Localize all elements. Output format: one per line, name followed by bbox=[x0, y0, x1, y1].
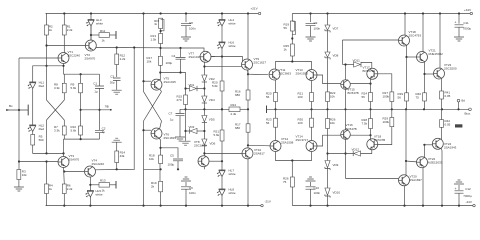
wire: HL4 to HL6 bbox=[221, 26, 223, 42]
wire: mid rail right segment bbox=[267, 108, 471, 110]
svg-text:-44V: -44V bbox=[466, 200, 472, 204]
junction dot VT5 column bbox=[159, 71, 161, 73]
zener VD8z bbox=[325, 52, 339, 59]
wire: feedback tap bbox=[81, 109, 110, 111]
diode VD3 bbox=[186, 125, 205, 134]
resistor R15 bbox=[177, 95, 188, 105]
svg-text:7000µ: 7000µ bbox=[463, 26, 472, 30]
wire: VT6 base bbox=[144, 129, 152, 131]
wire: to VT21 base bbox=[407, 56, 417, 58]
wire: VT15 emitter down bbox=[345, 89, 347, 109]
wire: VT17 emitter down bbox=[370, 79, 372, 93]
wire: R22z to mid rail bbox=[327, 102, 329, 119]
svg-text:56: 56 bbox=[284, 26, 288, 30]
junction dots on -44V rail bbox=[309, 205, 460, 207]
wire: VT6 collector bbox=[160, 121, 162, 129]
svg-text:VD8: VD8 bbox=[333, 54, 339, 58]
svg-text:7.5k: 7.5k bbox=[362, 122, 368, 126]
svg-text:2SA1015: 2SA1015 bbox=[189, 55, 202, 59]
terminal -21V bbox=[261, 200, 271, 207]
connector bar top bbox=[115, 31, 117, 39]
resistor R7 bbox=[54, 125, 66, 135]
svg-text:C9: C9 bbox=[314, 21, 318, 25]
svg-text:Red: Red bbox=[39, 84, 45, 88]
wire: VD5 to VD3 bbox=[203, 123, 205, 140]
svg-text:BC547B: BC547B bbox=[346, 127, 357, 131]
wire: R13 to R17 bbox=[160, 44, 162, 57]
svg-text:2SC4793: 2SC4793 bbox=[409, 34, 422, 38]
junction dot mid rail VAS bbox=[247, 108, 249, 110]
wire: R21 to rail bbox=[311, 102, 313, 110]
svg-text:560: 560 bbox=[39, 138, 44, 142]
wire: VT10 collector down bbox=[247, 159, 249, 206]
wire: bus1 bbox=[64, 73, 100, 75]
capacitor C11 bbox=[455, 14, 472, 31]
transistor VT8 bbox=[194, 140, 209, 167]
svg-text:75: 75 bbox=[416, 96, 420, 100]
diode VD1 bbox=[186, 83, 205, 91]
resistor R6 bbox=[62, 184, 73, 194]
svg-text:2SA817: 2SA817 bbox=[254, 152, 265, 156]
svg-text:2k: 2k bbox=[151, 185, 155, 189]
connector bar input bbox=[27, 105, 29, 116]
wire: emitter line y83.6 bbox=[350, 83, 371, 85]
wire: rail to R42 bbox=[441, 109, 443, 119]
resistor R13 bbox=[151, 34, 163, 44]
svg-text:white: white bbox=[229, 44, 236, 48]
wire: bus2 bbox=[64, 138, 100, 140]
zener VD9 bbox=[325, 161, 339, 171]
wire: X to R7 bbox=[63, 120, 65, 126]
wire: VT20 base line bbox=[346, 178, 399, 180]
junction dot Y-join bbox=[291, 60, 293, 62]
wire: X left verticals bbox=[47, 93, 65, 154]
wire: VT12 base feed bbox=[247, 132, 270, 148]
wire: R23 leads bbox=[275, 109, 277, 140]
zener VD7z bbox=[325, 14, 339, 33]
junction dot R12b node bbox=[89, 184, 91, 186]
ground C3 bbox=[112, 90, 122, 94]
wire: R16 to rail bbox=[247, 100, 249, 109]
wire: R39 to rail bbox=[406, 101, 408, 109]
junction dots mid rail left bbox=[184, 108, 223, 110]
resistor R22z bbox=[326, 91, 336, 102]
junction dot R21a top bbox=[221, 108, 223, 110]
svg-text:1.5k: 1.5k bbox=[151, 37, 157, 41]
svg-text:2.2k: 2.2k bbox=[67, 187, 73, 191]
svg-text:+: + bbox=[455, 187, 457, 191]
terminal +44V bbox=[464, 8, 472, 15]
wire: R4 leads bbox=[45, 162, 48, 206]
resistor R23 bbox=[266, 118, 278, 128]
wire: rail to R1 bbox=[63, 14, 65, 26]
wire: R5 down to VT3 emitter line bbox=[33, 145, 64, 153]
svg-text:-21V: -21V bbox=[265, 200, 271, 204]
wire: VT15 top bbox=[345, 65, 347, 81]
junction dot VT6 base bbox=[142, 129, 144, 131]
wire: VT23 collector bbox=[439, 14, 441, 69]
svg-text:56: 56 bbox=[398, 96, 402, 100]
transistor VT17p bbox=[341, 123, 357, 139]
diff cross X mid bbox=[144, 92, 162, 121]
transistor VT16p bbox=[363, 66, 378, 80]
wire: C2 bottom bbox=[99, 133, 101, 139]
svg-text:Вх.: Вх. bbox=[9, 104, 13, 108]
svg-text:100n: 100n bbox=[314, 191, 321, 195]
transistor VT13 bbox=[296, 68, 318, 81]
diode VD5 bbox=[202, 109, 215, 122]
wire: VT22 collector bbox=[422, 168, 424, 206]
svg-text:3.3k: 3.3k bbox=[54, 86, 60, 90]
wire: VT1 emitter line bbox=[63, 64, 65, 75]
wire: HL7 to HL8 bbox=[221, 177, 223, 190]
wire: R20 to rail bbox=[275, 102, 277, 110]
resistor R30 bbox=[298, 118, 314, 128]
svg-text:C4: C4 bbox=[172, 54, 176, 58]
ground C8 bbox=[181, 37, 191, 41]
wire: VT14 base loop bbox=[317, 135, 341, 146]
wire: C11 to ground bbox=[458, 27, 460, 36]
capacitor C4 bbox=[166, 54, 186, 65]
connector bar bottom bbox=[115, 181, 117, 189]
svg-text:1µ: 1µ bbox=[170, 118, 174, 122]
junction dot at R12 top bbox=[116, 46, 118, 48]
ground C6 bbox=[181, 177, 191, 181]
resistor R13b bbox=[90, 179, 109, 193]
wire: VT18e to R39 bbox=[406, 57, 408, 93]
svg-text:BC547B: BC547B bbox=[348, 91, 359, 95]
svg-text:2SC1627: 2SC1627 bbox=[254, 61, 267, 65]
junction dot input node bbox=[18, 109, 20, 111]
wire: VT3 base bbox=[19, 161, 58, 163]
wire: mid rail right of R24 bbox=[240, 108, 249, 110]
svg-text:0.05: 0.05 bbox=[445, 123, 451, 127]
junction dots mid rail right bbox=[274, 108, 459, 110]
wire: VT7 to VT9 emitter bbox=[204, 66, 248, 74]
wire: VT20 emitter bbox=[405, 161, 407, 175]
wire: R18 to R19 bbox=[159, 163, 161, 181]
svg-text:10k: 10k bbox=[149, 157, 154, 161]
LED HL1 bbox=[27, 81, 44, 89]
resistor R18 bbox=[149, 154, 163, 164]
resistor R5 bbox=[31, 135, 44, 146]
wire: HL1 to HL2 bbox=[32, 89, 34, 126]
ground C12 bbox=[454, 180, 464, 184]
junction dots bus1 bbox=[80, 73, 82, 75]
junction dot R9-R10 column bbox=[80, 109, 82, 111]
resistor R16 bbox=[235, 90, 250, 101]
svg-text:Вых.: Вых. bbox=[465, 111, 472, 115]
terminal speaker bbox=[457, 99, 465, 103]
wire: VT23 emitter bbox=[441, 78, 443, 91]
wire: C8 to ground bbox=[185, 26, 187, 37]
svg-text:100k: 100k bbox=[383, 120, 390, 124]
wire: R41 to rail bbox=[441, 99, 443, 109]
wire: C6 to rail bbox=[185, 189, 187, 205]
resistor R21 bbox=[298, 92, 314, 102]
resistor R41 bbox=[440, 91, 451, 100]
capacitor C8 bbox=[181, 14, 196, 31]
wire: VT11 emitter bbox=[275, 80, 277, 93]
svg-text:43k: 43k bbox=[120, 154, 125, 158]
wire: bus1 to R8 bbox=[63, 74, 65, 83]
transistor VT3 bbox=[58, 154, 80, 168]
svg-text:VD5: VD5 bbox=[209, 118, 215, 122]
junction dot y56.5 at LED column bbox=[221, 55, 223, 57]
wire: C4 leads bbox=[179, 48, 181, 74]
svg-text:2SA1930: 2SA1930 bbox=[296, 72, 309, 76]
svg-text:10k: 10k bbox=[330, 121, 335, 125]
wire: feedback vertical bottom bbox=[143, 121, 145, 206]
diode VD12 bbox=[328, 148, 361, 157]
svg-text:VD12: VD12 bbox=[352, 148, 360, 152]
svg-text:100n: 100n bbox=[314, 27, 321, 31]
wire: VT8 base tap bbox=[209, 160, 222, 162]
wire: R27 to rail bbox=[391, 102, 393, 110]
resistor R20a bbox=[212, 81, 224, 92]
svg-text:R13: R13 bbox=[100, 179, 106, 183]
wire: VT9 emitter bbox=[247, 70, 250, 90]
wire: VT17p top bbox=[345, 109, 347, 129]
wire: R29 to rail bbox=[391, 109, 393, 117]
wire: R25 to Y-join bbox=[291, 56, 293, 62]
zener VD10 bbox=[325, 188, 340, 198]
resistor R21a bbox=[214, 130, 225, 142]
resistor R19 bbox=[151, 181, 163, 192]
svg-text:VD11: VD11 bbox=[353, 59, 361, 63]
wire: bias line y72.5 bbox=[160, 73, 185, 96]
wire: VT21 collector bbox=[422, 14, 424, 52]
junction dots bus2 bbox=[80, 138, 82, 140]
wire: VT2 emitter to rail bbox=[90, 14, 92, 41]
junction dot VT7 collector bbox=[203, 65, 205, 67]
diff cross X left bbox=[47, 100, 65, 120]
svg-text:BC547B: BC547B bbox=[374, 138, 385, 142]
speaker block bbox=[455, 124, 462, 127]
svg-text:2.4k: 2.4k bbox=[231, 112, 237, 116]
svg-text:5.6k: 5.6k bbox=[212, 84, 218, 88]
wire: C9 to ground bbox=[310, 26, 312, 37]
ground C11 bbox=[454, 37, 464, 41]
svg-text:BC557B: BC557B bbox=[363, 69, 374, 73]
junction dot left column bbox=[18, 160, 20, 162]
resistor R15a bbox=[154, 18, 164, 31]
svg-text:C7: C7 bbox=[169, 112, 173, 116]
svg-text:2.2k: 2.2k bbox=[67, 28, 73, 32]
junction dot VD11 line bbox=[344, 63, 346, 65]
junction dot VT2 base bbox=[45, 44, 47, 46]
wire: VT18 emitter up bbox=[370, 129, 372, 140]
svg-text:R11: R11 bbox=[100, 29, 106, 33]
wire: Y-join bottom pair bbox=[276, 152, 312, 161]
svg-text:100: 100 bbox=[298, 95, 303, 99]
junction dot C5 top bbox=[159, 147, 161, 149]
svg-text:+44V: +44V bbox=[464, 8, 471, 12]
wire: VT17 collector to R27 bbox=[378, 74, 392, 92]
wire: input to node bbox=[7, 109, 28, 111]
resistor R20 bbox=[266, 92, 278, 102]
wire: VT18 collector to R29 bbox=[378, 127, 392, 145]
svg-text:2SA1943: 2SA1943 bbox=[444, 146, 457, 150]
wire: Y-join top pair bbox=[276, 62, 312, 70]
wire: VT2 base wire bbox=[47, 45, 86, 47]
wire: speaker stub bbox=[458, 102, 460, 109]
wire: VT9 collector bbox=[247, 14, 249, 60]
wire: R24z to rail bbox=[370, 102, 372, 110]
ground C9 bbox=[306, 37, 316, 41]
junction dot C4 top bbox=[179, 47, 181, 49]
wire: R26z to VD9 bbox=[327, 129, 329, 161]
transistor VT1 bbox=[58, 50, 80, 64]
resistor R39 bbox=[398, 92, 409, 101]
junction dot R11 node bbox=[90, 34, 92, 36]
wire: -44V bottom rail (right board) bbox=[293, 205, 473, 207]
junction dot VT22 emitter bbox=[423, 144, 425, 146]
ground C10 bbox=[306, 177, 316, 181]
resistor R19b bbox=[284, 14, 296, 35]
resistor R10 bbox=[71, 125, 83, 135]
ground R3 bbox=[14, 187, 24, 191]
junction dot R4 top bbox=[45, 160, 47, 162]
junction dot VT4 emitter line bbox=[116, 168, 118, 170]
junction dot emitter line bbox=[45, 65, 64, 67]
wire: VT22 emitter bbox=[423, 145, 425, 157]
svg-text:VD4: VD4 bbox=[209, 98, 215, 102]
wire: VD6 to VT10 base line bbox=[203, 146, 205, 156]
wire: HL2 to R5 bbox=[32, 132, 34, 135]
resistor R11 bbox=[91, 29, 110, 43]
svg-text:1k: 1k bbox=[49, 187, 53, 191]
svg-text:MJE15032: MJE15032 bbox=[429, 52, 444, 56]
junction dot VD12 left bbox=[344, 152, 346, 154]
junction dot VT8 node bbox=[203, 152, 205, 154]
junction dot VD chain bbox=[203, 87, 205, 89]
wire: Y bottom to R22b bbox=[291, 161, 293, 178]
svg-text:2SC3717: 2SC3717 bbox=[296, 138, 309, 142]
capacitor C12 bbox=[455, 185, 472, 198]
resistor R27 bbox=[383, 91, 394, 102]
wire: to VT24 base bbox=[424, 144, 432, 146]
wire: R9 leads bbox=[80, 74, 82, 126]
wire: R21a leads bbox=[221, 109, 223, 170]
svg-text:C5: C5 bbox=[170, 153, 174, 157]
wire: feedback vertical top bbox=[143, 14, 145, 92]
wire: link column bbox=[133, 46, 135, 169]
capacitor C7 bbox=[169, 109, 185, 121]
resistor R9 bbox=[71, 83, 83, 93]
connector bar mid rail bbox=[266, 106, 268, 114]
wire: R13b to bar bbox=[110, 184, 117, 186]
terminal +21V bbox=[251, 7, 261, 15]
junction dot x292 bbox=[291, 37, 293, 39]
svg-text:2SC2240: 2SC2240 bbox=[92, 162, 105, 166]
wire: R18 bottom link bbox=[144, 168, 161, 170]
transistor VT9 bbox=[242, 57, 267, 70]
svg-text:5.6k: 5.6k bbox=[214, 133, 220, 137]
wire: VAS to VT18 base bbox=[343, 39, 399, 41]
svg-text:2SC1815: 2SC1815 bbox=[194, 144, 207, 148]
wire: mid rail left bbox=[180, 108, 229, 110]
svg-text:ПВ: ПВ bbox=[105, 105, 109, 109]
wire: VT7 collector down bbox=[203, 62, 205, 75]
resistor R42 bbox=[440, 119, 451, 127]
transistor VT4 bbox=[85, 159, 105, 178]
LED HL2 bbox=[27, 124, 44, 132]
svg-text:56: 56 bbox=[266, 121, 270, 125]
wire: VT4 collector down bbox=[89, 177, 91, 206]
transistor VT6 bbox=[151, 128, 176, 140]
LED HL4 bbox=[217, 14, 236, 27]
transistor VT23 bbox=[434, 63, 457, 79]
wire: R17 to VT5 bbox=[157, 65, 160, 79]
wire: C5 top line bbox=[161, 148, 179, 158]
svg-text:C6: C6 bbox=[189, 186, 193, 190]
wire: VD7z to VD8z bbox=[327, 31, 329, 52]
wire: R22b to rail bbox=[291, 187, 293, 206]
wire: HL3 to R11 node bbox=[90, 26, 92, 40]
wire: VD9 to VD10 bbox=[327, 169, 329, 189]
resistor R24 bbox=[229, 103, 240, 116]
terminal input bbox=[6, 104, 13, 111]
wire: +44V top rail (right board) bbox=[292, 13, 470, 15]
wire: VD11 to VT17 top bbox=[361, 63, 372, 69]
svg-text:2SC3663: 2SC3663 bbox=[279, 72, 292, 76]
svg-text:R24: R24 bbox=[231, 103, 237, 107]
wire: R17b top bbox=[247, 109, 249, 124]
wire: VT1 base bbox=[19, 57, 58, 59]
svg-text:C1: C1 bbox=[93, 82, 97, 86]
wire: R12 leads bbox=[116, 48, 118, 78]
wire: VD8z to R22z bbox=[327, 58, 329, 92]
transistor VT21 bbox=[417, 49, 444, 63]
svg-text:5.6k: 5.6k bbox=[71, 86, 77, 90]
capacitor C10 bbox=[306, 182, 321, 195]
svg-text:VD1: VD1 bbox=[189, 83, 195, 87]
svg-text:10k: 10k bbox=[147, 60, 152, 64]
wire: VT3 collector down bbox=[63, 167, 66, 184]
svg-text:+21V: +21V bbox=[251, 7, 258, 11]
transistor VT22 bbox=[417, 157, 443, 168]
svg-text:+: + bbox=[455, 20, 457, 24]
capacitor C2 bbox=[95, 127, 106, 135]
svg-text:680: 680 bbox=[235, 93, 240, 97]
svg-text:2SA970: 2SA970 bbox=[85, 56, 96, 60]
ground C7 bbox=[175, 137, 185, 141]
svg-text:1k: 1k bbox=[49, 28, 53, 32]
wire: C1 leads bbox=[99, 74, 101, 130]
junction dot Y-join bottom bbox=[291, 159, 293, 161]
junction dot VD1 left bbox=[184, 87, 186, 89]
junction dot VT21 emitter bbox=[423, 73, 425, 75]
LED HL3 bbox=[86, 18, 104, 26]
transistor VT2 bbox=[85, 40, 97, 60]
wire: VD3 left up bbox=[184, 109, 186, 132]
svg-text:2SC2240: 2SC2240 bbox=[68, 54, 81, 58]
resistor R1 bbox=[62, 25, 73, 36]
diode VD11 bbox=[343, 59, 362, 68]
junction dot VT3-VT4 link bbox=[63, 170, 65, 172]
svg-text:10k: 10k bbox=[22, 173, 27, 177]
junction dot VT9 emitter bbox=[247, 73, 249, 75]
svg-text:VD10: VD10 bbox=[333, 191, 341, 195]
LED HL8 bbox=[217, 188, 236, 196]
wire: VD3 node to ground bbox=[185, 131, 187, 141]
wire: VT17p bottom bbox=[345, 139, 347, 178]
svg-text:C3: C3 bbox=[110, 74, 114, 78]
svg-text:1k: 1k bbox=[102, 39, 106, 43]
svg-text:5.6k: 5.6k bbox=[71, 129, 77, 133]
wire: VD4 to rail bbox=[203, 103, 205, 109]
